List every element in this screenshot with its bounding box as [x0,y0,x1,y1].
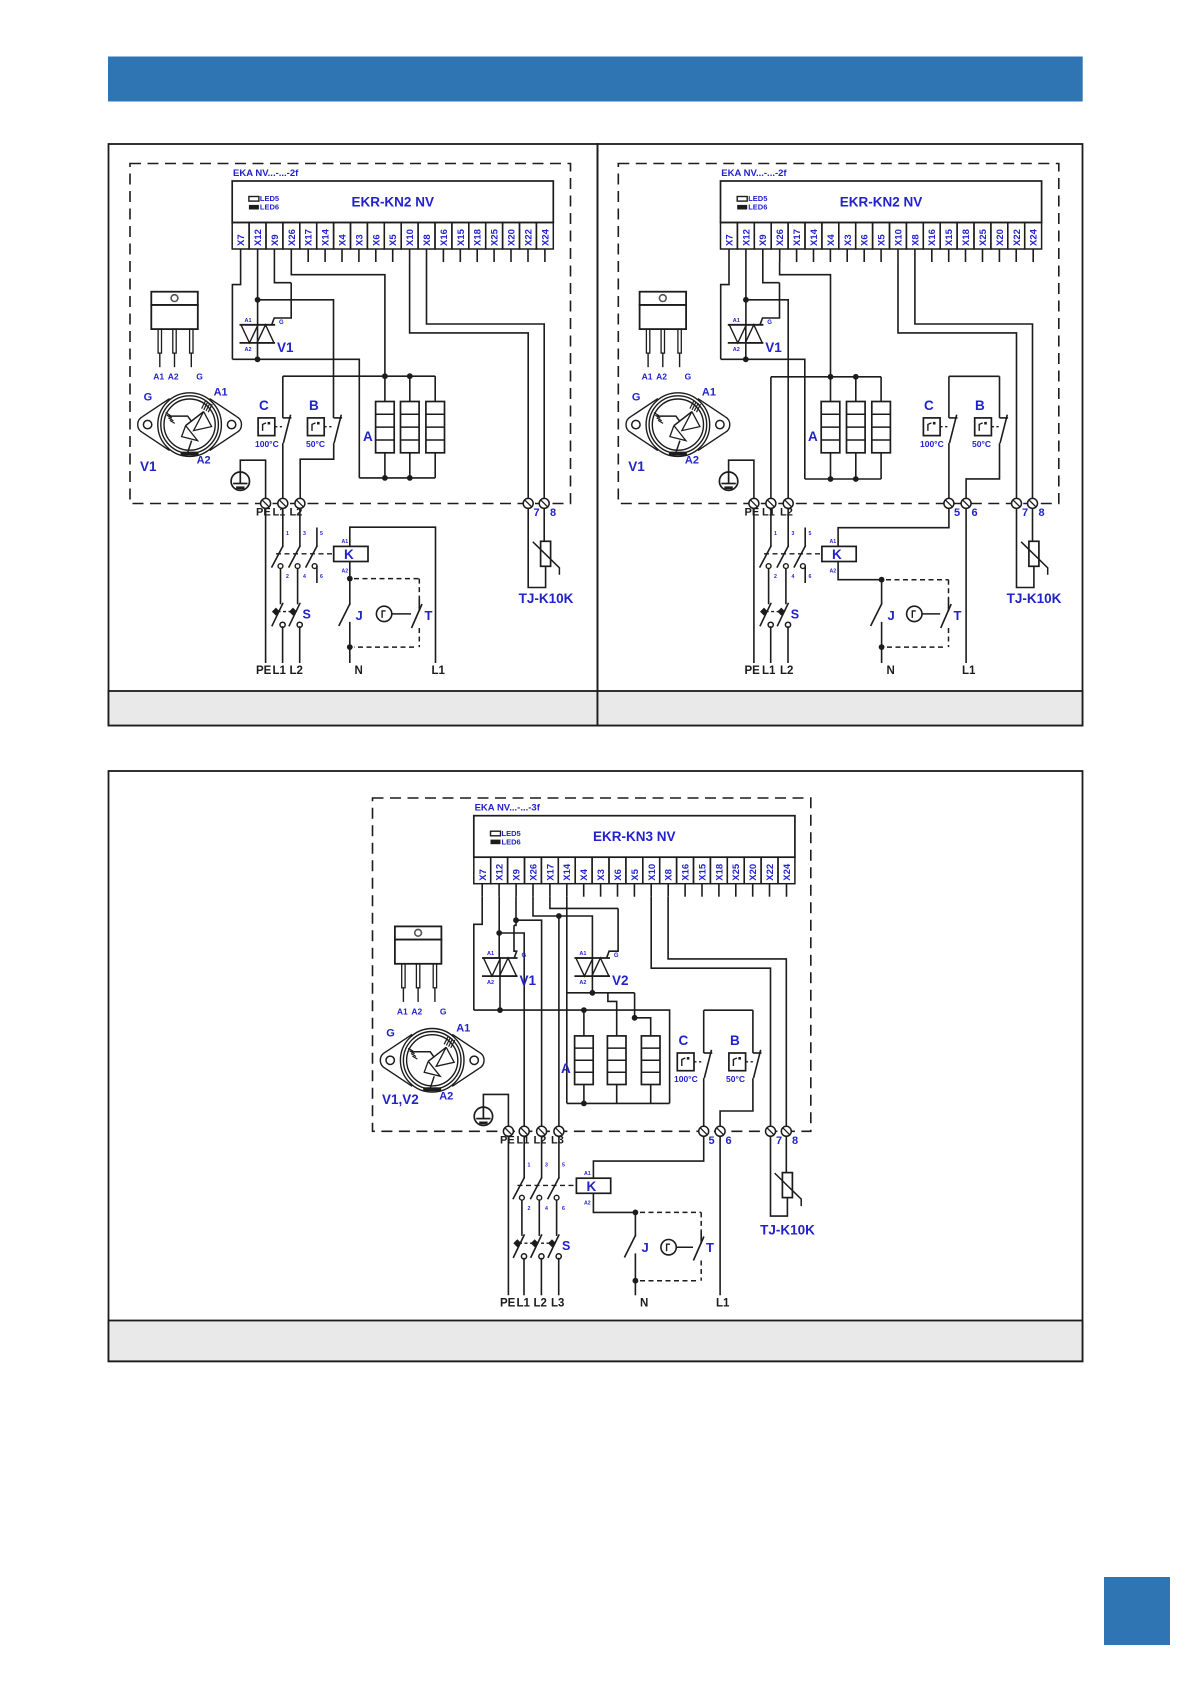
wire element 1 riser (p3) [583,1010,585,1036]
svg-text:V1: V1 [277,340,294,355]
terminal X6 stub wire [863,249,865,262]
svg-text:A1: A1 [342,539,349,545]
terminal X16 stub wire [684,884,686,897]
junction heater bus 1 (p2) [828,374,834,380]
wire X8 to terminal 8 (p3) [668,897,786,1132]
terminal X22 stub wire [527,249,529,262]
svg-text:B: B [975,398,985,413]
terminal X9 stub wire [515,884,517,897]
terminal X15 [694,857,711,884]
svg-text:A2: A2 [197,455,211,467]
terminal X12 [491,857,508,884]
contact J [339,579,363,648]
unit dashed enclosure EKA NV...-...-2f [130,164,571,504]
svg-text:X17: X17 [792,229,803,246]
contactor pole 1 (p3) [513,1177,525,1200]
wire K coil to terminal 5 (p2) [838,508,949,546]
svg-text:G: G [685,372,692,382]
svg-text:B: B [730,1033,740,1048]
svg-text:J: J [642,1240,649,1255]
svg-text:A2: A2 [685,455,699,467]
terminal X25 stub wire [493,249,495,262]
svg-text:4: 4 [303,574,306,580]
svg-text:X8: X8 [664,869,675,881]
triac V1 (p3) [482,951,537,988]
wire B switch to terminal L2 [300,443,334,503]
terminal X5 [626,857,643,884]
wire triac V1 A2 down (p3) [499,976,501,1010]
thermistor TJ-K10K [533,541,560,575]
junction X12 node (p2) [743,297,749,303]
terminal X20 stub wire [752,884,754,897]
wire L2 pole down to S (p2) [785,569,787,605]
svg-text:L1: L1 [432,665,446,677]
svg-text:X8: X8 [910,234,921,246]
junction K bottom [347,576,353,582]
wire X7 to triac A2 run (p3) [474,897,482,1010]
wire L1 to contactor (p2) [770,508,772,547]
terminal X8 stub wire [426,249,428,262]
V2 A2 run (p3) [567,992,635,994]
terminal X8 [906,223,923,250]
wire K coil to L1 feed [350,527,436,663]
contactor pole 1 [272,546,284,569]
contactor linkage (p3) [518,1184,577,1186]
svg-text:A2: A2 [487,980,494,986]
contactor pin numbers (p2) [774,531,812,580]
svg-text:N: N [640,1298,648,1310]
svg-text:X20: X20 [507,229,518,246]
wire L2 pole down to S [297,569,299,605]
terminal X16 stub wire [931,249,933,262]
terminal X3 [351,223,368,250]
svg-text:G: G [767,320,772,326]
terminal X5 [873,223,890,250]
labels PE L1 L2 [256,507,302,519]
unit dashed enclosure EKA NV...-...-3f [373,798,811,1131]
svg-text:6: 6 [809,574,812,580]
junction J bottom (p3) [633,1278,639,1284]
terminal X22 stub wire [1015,249,1017,262]
terminal X22 [761,857,778,884]
terminal X20 stub wire [998,249,1000,262]
svg-text:2: 2 [286,574,289,580]
svg-text:A2: A2 [342,569,349,575]
heater bank A [376,402,445,453]
lamp (p2) [907,606,922,621]
svg-text:LED6: LED6 [748,203,767,212]
wire J to N (p3) [634,1281,636,1296]
terminal X15 [452,223,469,250]
svg-text:EKA NV...-...-2f: EKA NV...-...-2f [233,168,299,179]
svg-text:3: 3 [303,531,306,537]
contactor pole 2 (p3) [530,1177,542,1200]
svg-text:V1: V1 [628,459,645,474]
terminal X12 [737,223,754,250]
thermostat T dashed box (p3) [640,1212,701,1280]
terminal X26 stub wire [290,249,292,262]
terminal X24 stub wire [544,249,546,262]
thermistor TJ-K10K (p3) [775,1173,802,1207]
wire earth to PE terminal (p3) [483,1094,508,1131]
wire X12 node to terminal L1 (p3) [499,933,524,1131]
wire L2 to contactor [299,508,301,547]
switch S pole 3 (p3) [548,1234,561,1259]
terminal X17 [300,223,317,250]
controller module EKR-KN2 NV [721,181,1042,223]
svg-text:A1: A1 [245,318,252,324]
terminal X10 stub wire [897,249,899,262]
wire X10 to terminal 7 (p3) [651,897,770,1132]
svg-text:TJ-K10K: TJ-K10K [1007,591,1062,606]
svg-text:G: G [522,953,527,959]
svg-text:EKR-KN2 NV: EKR-KN2 NV [840,195,923,210]
terminal X10 [890,223,907,250]
panel 3 frame [109,771,1083,1361]
terminal X22 stub wire [769,884,771,897]
svg-text:G: G [196,372,203,382]
wire lamp to contact T (p3) [676,1246,693,1248]
svg-text:7: 7 [1022,507,1028,519]
svg-text:A: A [561,1061,571,1076]
junction J bottom [347,644,353,650]
contactor linkage (p2) [764,553,822,555]
wire terminal 7 to thermistor loop (p2) [1017,508,1034,588]
labels PE L1 L2 L3 (p3) [500,1135,564,1147]
lamp (p3) [661,1240,676,1255]
svg-text:G: G [632,392,641,404]
svg-text:X4: X4 [826,234,837,246]
wire X7 to triac A2 node (p2) [721,262,729,359]
terminal X26 stub wire [532,884,534,897]
junction element 1 feed (p3) [581,1007,587,1013]
svg-text:A1: A1 [642,372,653,382]
svg-text:X26: X26 [529,864,540,881]
svg-text:L2: L2 [780,665,793,677]
svg-text:6: 6 [320,574,323,580]
thyristor module V1,V2 (TO-3 view, p3) [380,1022,484,1107]
wire C switch to terminal L1 [282,443,284,503]
terminal X12 stub wire [498,884,500,897]
svg-text:8: 8 [1039,507,1045,519]
wire K coil to J (p3) [593,1193,635,1212]
thermostat C switch [283,415,292,443]
wire terminal 7 to thermistor loop [528,508,545,588]
terminal X12 [249,223,266,250]
wire L3 to contactor (p3) [558,1136,560,1179]
wire triac V1 A2 down [257,343,259,359]
junction K bottom (p2) [879,577,885,583]
svg-text:4: 4 [545,1206,548,1212]
terminal X22 [520,223,537,250]
svg-text:S: S [562,1239,570,1253]
svg-text:X14: X14 [562,863,573,881]
svg-text:L1: L1 [762,665,776,677]
switch S pole 1 [272,603,285,628]
V1 A2 run (p3) [474,1010,670,1103]
svg-text:2: 2 [528,1206,531,1212]
terminal X16 [923,223,940,250]
wire K coil to J (p2) [838,562,882,580]
contact T (p3) [693,1230,714,1260]
svg-text:X14: X14 [321,228,332,246]
terminal 7 (p2) [1012,498,1029,519]
svg-text:A2: A2 [411,1006,422,1016]
switch S pole 1 (p3) [513,1234,526,1259]
junction heater bus 2 (p2) [853,374,859,380]
terminal X6 [367,223,384,250]
terminal X7 [474,857,491,884]
svg-text:X16: X16 [927,229,938,246]
wire X12 to triac V1 A1 (p2) [745,262,747,325]
junction X9 node (p3) [513,917,519,923]
terminal X14 stub wire [813,249,815,262]
terminal X14 [558,857,575,884]
svg-text:L1: L1 [962,665,976,677]
terminal 8 [539,498,556,519]
heater bottom drops (p2) [831,453,882,479]
thyristor module V1 (TO-3 view, p2) [626,387,730,474]
terminal X18 stub wire [965,249,967,262]
heater bottom bus (p2) [805,478,881,480]
junction K bottom (p3) [633,1210,639,1216]
terminal 6 (p2) [961,498,978,519]
wire X7 to triac A2 node [232,262,240,359]
svg-text:X25: X25 [731,863,742,881]
svg-text:PE: PE [500,1298,516,1310]
terminal X10 [643,857,660,884]
svg-text:X5: X5 [630,868,641,880]
svg-text:X9: X9 [270,234,281,246]
svg-text:A2: A2 [584,1200,591,1206]
thyristor module V1 (TO-3 view) [138,387,242,474]
wire terminal 8 to thermistor [543,508,545,541]
relay coil K (p2) [822,539,856,575]
svg-text:X5: X5 [877,234,888,246]
wire L3 pole down to S (p3) [556,1200,558,1236]
svg-text:K: K [587,1179,597,1194]
svg-text:100°C: 100°C [674,1074,698,1084]
svg-text:X16: X16 [439,229,450,246]
svg-text:V1: V1 [140,459,157,474]
blue header bar [108,57,1083,102]
svg-text:TJ-K10K: TJ-K10K [760,1223,815,1238]
terminal X12 stub wire [257,249,259,262]
wire X9 to gate of V1 (p2) [763,262,780,283]
wire X8 to terminal 8 (p2) [915,262,1033,503]
svg-text:N: N [355,665,363,677]
thermostat B switch (p3) [753,1050,762,1078]
terminal X20 [503,223,520,250]
junction triac V1 A2 (p2) [743,356,749,362]
svg-text:X14: X14 [809,228,820,246]
thermostat T dashed box [354,579,419,648]
terminal X8 stub wire [914,249,916,262]
heater bottom bus [359,477,435,479]
terminal X6 [609,857,626,884]
triac V1 (p2) [728,318,783,355]
terminal X3 stub wire [846,249,848,262]
terminal X26 stub wire [779,249,781,262]
terminal X9 stub wire [762,249,764,262]
terminal X10 stub wire [409,249,411,262]
terminal X26 [771,223,788,250]
svg-text:4: 4 [792,574,795,580]
wire bridge to B (p2) [999,376,1001,418]
wire X9 to gate of V1 [274,262,291,283]
thermostat B 50C (p3) [726,1033,753,1084]
svg-text:5: 5 [709,1135,715,1147]
terminal X24 [1025,223,1042,250]
terminal X3 [592,857,609,884]
wire X12 node to terminal L2 (p2) [746,300,788,504]
svg-text:X8: X8 [422,234,433,246]
terminal X18 [710,857,727,884]
contactor pole 3 stub [306,528,318,584]
terminal X15 stub wire [459,249,461,262]
terminal X25 stub wire [982,249,984,262]
svg-text:A2: A2 [656,372,667,382]
switch S pole 2 (p2) [777,603,790,628]
svg-text:G: G [614,953,619,959]
wire K coil to J [349,562,351,579]
wire B to terminal 6 (p3) [720,1078,753,1131]
wire X12 to triac V1 A1 [257,262,259,325]
terminal X10 [401,223,418,250]
terminal L3 (p3) [554,1126,564,1136]
switch S pole 2 [289,603,302,628]
wire X26 to triac V2 A1 (p3) [533,897,592,958]
svg-text:L3: L3 [551,1135,564,1147]
junction J bottom (p2) [879,644,885,650]
svg-text:X15: X15 [944,228,955,246]
terminal X14 [317,223,334,250]
svg-text:5: 5 [809,531,812,537]
wire K coil to terminal 5 (p3) [593,1136,703,1178]
wire L2 pole down to S (p3) [538,1200,540,1236]
svg-text:N: N [887,665,895,677]
svg-text:X3: X3 [354,234,365,246]
terminal X12 stub wire [745,249,747,262]
terminal L2 (p2) [783,498,793,508]
terminal X17 stub wire [796,249,798,262]
terminal X25 stub wire [735,884,737,897]
svg-text:EKA NV...-...-2f: EKA NV...-...-2f [721,168,787,179]
svg-text:7: 7 [534,507,540,519]
svg-text:L2: L2 [290,665,303,677]
svg-text:8: 8 [550,507,556,519]
contactor pole 2 [289,546,301,569]
thermostat C switch (p2) [949,415,958,443]
heater element risers (p2) [831,377,882,402]
terminal X15 stub wire [948,249,950,262]
contactor pole 2 (p2) [777,546,789,569]
svg-text:X16: X16 [681,864,692,881]
terminal X16 stub wire [442,249,444,262]
terminal X24 [536,223,553,250]
svg-text:X15: X15 [698,863,709,881]
wire terminal 6 to L1 lead (p2) [965,508,967,663]
svg-text:X5: X5 [388,234,399,246]
panel 1 frame [109,144,598,726]
heater top bus [283,375,435,377]
terminal 8 (p2) [1028,498,1045,519]
terminal X6 [856,223,873,250]
wire L1 to contactor [282,508,284,547]
wire L1 pole down to S (p2) [768,569,770,605]
svg-text:X22: X22 [1012,229,1023,246]
terminal X15 stub wire [701,884,703,897]
thermostat B 50C (p2) [972,398,999,449]
svg-text:G: G [440,1006,447,1016]
junction element 3 feed (p3) [632,1015,638,1021]
junction V2 A2 (p3) [590,990,596,996]
terminal X4 stub wire [829,249,831,262]
terminal X24 stub wire [786,884,788,897]
svg-text:X10: X10 [405,229,416,246]
terminal X3 [839,223,856,250]
wire B to terminal 6 (p2) [966,443,999,503]
svg-text:100°C: 100°C [920,439,944,449]
svg-text:L1: L1 [716,1298,730,1310]
transistor package V1 (TO-220 view, p2) [640,292,692,382]
wire PE down (p2) [753,508,755,663]
terminal L1 (p2) [766,498,776,508]
svg-text:X18: X18 [473,229,484,246]
contactor linkage [276,553,334,555]
heater bottom bus (p3) [567,1102,670,1104]
wire bridge to B (p3) [752,1010,754,1053]
svg-text:X17: X17 [304,229,315,246]
wire C to terminal 5 (p3) [703,1078,705,1131]
wire terminal 7 to thermistor loop (p3) [771,1136,788,1216]
triac V1 [240,318,295,355]
thermostat bridge C-B (p2) [949,375,1000,377]
terminal X18 stub wire [718,884,720,897]
thermostat C 100C [255,398,282,449]
wire PE down (p3) [507,1136,509,1295]
wire triac A2 to heater bottom bus [232,359,359,478]
terminal X18 stub wire [476,249,478,262]
terminal 7 (p3) [766,1126,783,1147]
terminal X8 stub wire [667,884,669,897]
contactor pin numbers (p3) [528,1163,566,1213]
svg-text:S: S [303,608,311,622]
svg-text:LED6: LED6 [260,203,279,212]
svg-text:100°C: 100°C [255,439,279,449]
junction bottom bus 1 [382,475,388,481]
svg-text:6: 6 [726,1135,732,1147]
terminal X5 [384,223,401,250]
svg-text:5: 5 [954,507,960,519]
svg-text:L2: L2 [780,507,793,519]
thermostat C switch (p3) [704,1050,713,1078]
terminal X17 [541,857,558,884]
terminal X3 stub wire [600,884,602,897]
wire X9 to gate of V1 and L2 (p3) [515,897,517,921]
LED5 / LED6 indicators [737,194,767,212]
terminal X25 [974,223,991,250]
terminal X9 [754,223,771,250]
svg-text:X12: X12 [253,229,264,246]
svg-text:X7: X7 [236,234,247,246]
svg-text:X15: X15 [456,228,467,246]
terminal X7 [721,223,738,250]
junction X12 node [255,297,261,303]
svg-text:L1: L1 [517,1135,530,1147]
terminal X3 stub wire [358,249,360,262]
svg-text:V1,V2: V1,V2 [382,1092,419,1107]
